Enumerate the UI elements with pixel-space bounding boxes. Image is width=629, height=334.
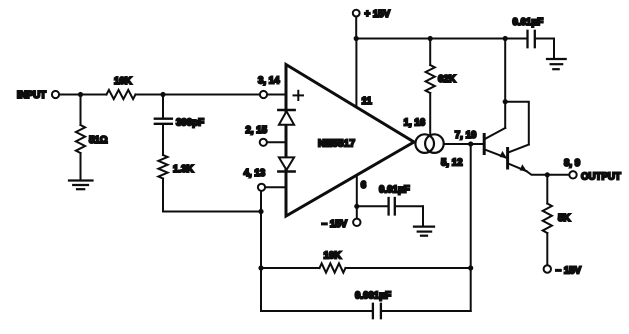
diode D1 (linearizing, cathode up) <box>278 110 294 125</box>
pin 11 wire <box>356 39 372 108</box>
OUTPUT terminal <box>564 158 621 183</box>
+15V terminal <box>353 9 391 20</box>
svg-text:6: 6 <box>361 180 367 191</box>
svg-text:10K: 10K <box>114 76 132 87</box>
ground (input divider) <box>69 181 93 190</box>
wire pin 3,14 to op-amp <box>267 94 286 96</box>
svg-text:10K: 10K <box>324 251 342 262</box>
pin 6 wire <box>357 175 367 218</box>
pin 2,15 terminal <box>246 125 268 146</box>
svg-text:8, 9: 8, 9 <box>564 158 581 169</box>
svg-text:51Ω: 51Ω <box>89 135 108 146</box>
wire Q2 emitter to output <box>527 171 570 175</box>
+ input polarity mark <box>294 91 304 100</box>
capacitor 0.01uF (pin 6 bypass) <box>357 184 423 226</box>
op-amp U1 NE5517 <box>286 65 414 217</box>
svg-text:− 15V: − 15V <box>322 219 348 230</box>
wire 390pF to 1.3K <box>162 125 164 155</box>
resistor 10K (input) <box>107 76 136 99</box>
resistor 1.3K <box>158 155 193 179</box>
svg-text:0.01μF: 0.01μF <box>513 17 544 28</box>
-15V terminal (pin 6) <box>322 219 361 230</box>
wire 390pF node down <box>162 95 164 118</box>
transistor Q1 <box>484 128 507 158</box>
svg-text:5, 12: 5, 12 <box>441 158 463 169</box>
capacitor 390pF <box>155 117 204 128</box>
-15V terminal (5K pulldown) <box>544 265 582 276</box>
wire pin 4,13 to diode line <box>265 186 286 188</box>
svg-text:62K: 62K <box>438 74 456 85</box>
capacitor 0.001uF (feedback) <box>261 291 471 319</box>
svg-text:1.3K: 1.3K <box>173 164 193 175</box>
resistor 5K <box>543 175 571 265</box>
node feedback-left junction <box>258 209 263 214</box>
node pin6 bypass junction <box>354 204 359 209</box>
svg-text:11: 11 <box>362 96 373 107</box>
node rail 62K <box>428 36 433 41</box>
svg-text:− 15V: − 15V <box>556 266 582 277</box>
resistor 51 ohm <box>76 125 108 153</box>
diode D2 (linearizing, cathode down) <box>278 157 294 171</box>
wire feedback right rail <box>470 144 472 311</box>
wire 51ohm to ground <box>80 153 82 180</box>
svg-text:3, 14: 3, 14 <box>258 76 280 87</box>
resistor 10K (feedback) <box>261 251 471 273</box>
svg-text:390pF: 390pF <box>176 117 204 128</box>
svg-text:4, 13: 4, 13 <box>244 168 266 179</box>
svg-text:1, 16: 1, 16 <box>404 118 426 129</box>
transistor Q2 <box>508 145 529 172</box>
wire collector feed down <box>504 39 506 129</box>
wire input to 10K <box>59 94 106 96</box>
ground (supply bypass) <box>547 59 566 69</box>
wire input node to 51ohm <box>80 95 82 126</box>
node collector tie <box>503 99 508 104</box>
wire +15V to rail <box>355 17 357 39</box>
OTA output current-mirror symbol (pins 1,16 / 5,12) <box>404 118 463 169</box>
node rail collector feed <box>503 36 508 41</box>
svg-text:2, 15: 2, 15 <box>246 125 268 136</box>
wire 1.3K down and right to feedback rail <box>163 179 261 212</box>
svg-text:0.01μF: 0.01μF <box>379 184 410 195</box>
svg-text:INPUT: INPUT <box>17 90 46 101</box>
node feedback left 10K <box>258 265 263 270</box>
node rail pin11 <box>354 36 359 41</box>
wire +15V supply rail <box>356 38 526 40</box>
svg-text:5K: 5K <box>558 213 570 224</box>
node 390pF junction <box>160 92 165 97</box>
wire pin 2,15 to diode line <box>267 141 287 143</box>
node feedback right 10K <box>468 265 473 270</box>
node input junction <box>78 92 83 97</box>
svg-text:NE5517: NE5517 <box>318 139 355 150</box>
pin 3,14 terminal <box>258 76 280 99</box>
pin 4,13 terminal <box>244 168 266 191</box>
INPUT terminal <box>17 90 59 101</box>
wire collector tie over to Q2 <box>505 102 529 145</box>
ground (pin 6 bypass) <box>414 227 434 236</box>
resistor 62K <box>426 39 456 135</box>
svg-text:+ 15V: + 15V <box>365 9 391 20</box>
node output-feedback junction <box>468 141 473 146</box>
svg-text:0.001μF: 0.001μF <box>355 291 391 302</box>
wire 10K to pin 3,14 <box>136 94 260 96</box>
svg-text:7, 10: 7, 10 <box>455 130 477 141</box>
svg-text:OUTPUT: OUTPUT <box>581 171 621 182</box>
wire pin 4,13 down to feedback rail <box>260 191 262 311</box>
node output junction <box>545 172 550 177</box>
capacitor 0.01uF (supply bypass) <box>513 17 555 59</box>
wire mirror to Q1 base <box>444 130 483 144</box>
